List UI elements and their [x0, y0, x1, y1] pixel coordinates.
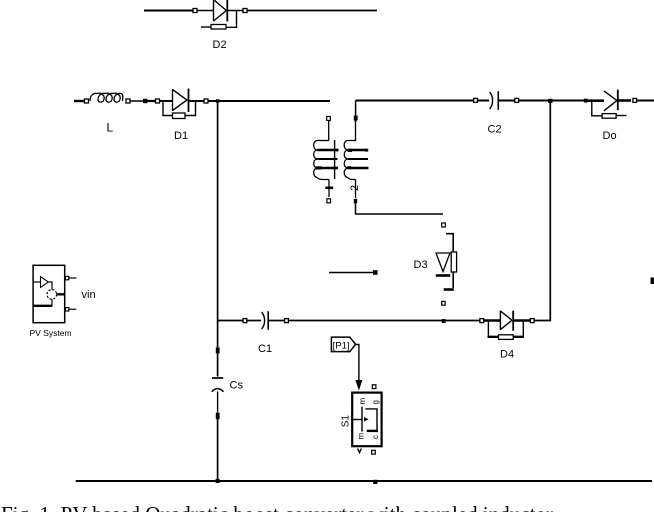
port — [633, 98, 637, 102]
junction — [143, 99, 147, 103]
wire with arrow — [355, 344, 362, 390]
wire — [147, 100, 155, 102]
svg-text:m: m — [357, 433, 366, 440]
junction — [216, 479, 220, 483]
port winding1 bottom — [327, 199, 331, 203]
wire — [637, 100, 654, 102]
diode D3 (vertical) — [436, 234, 457, 290]
diode D1 — [160, 89, 205, 119]
inductor L — [90, 93, 123, 102]
wire — [247, 320, 261, 322]
svg-text:D4: D4 — [500, 349, 514, 361]
wire — [144, 9, 193, 11]
svg-text:[P1]: [P1] — [333, 340, 350, 351]
port — [204, 99, 208, 103]
diode Do — [588, 90, 632, 119]
floating arrow wire — [329, 270, 378, 275]
wire — [356, 204, 444, 215]
port — [243, 9, 247, 13]
wire — [247, 10, 377, 12]
wire — [130, 100, 143, 102]
PV output port 1 — [65, 276, 76, 279]
svg-text:g: g — [371, 400, 380, 404]
port — [156, 99, 160, 103]
wire — [217, 353, 219, 377]
svg-text:S1: S1 — [340, 415, 351, 428]
svg-text:C1: C1 — [258, 343, 272, 355]
svg-text:Do: Do — [603, 130, 617, 142]
port — [584, 99, 588, 103]
wire — [356, 100, 474, 102]
core — [334, 140, 336, 179]
caption — [1, 502, 654, 512]
port Cs bottom (filled) — [216, 413, 220, 420]
port above S1 — [372, 385, 376, 389]
mosfet S1 — [352, 393, 381, 447]
svg-text:2: 2 — [349, 185, 361, 191]
wire — [519, 100, 584, 102]
PV System block — [33, 265, 65, 322]
port Cs top (filled) — [216, 347, 220, 353]
svg-text:vin: vin — [82, 289, 96, 301]
svg-text:D3: D3 — [414, 259, 428, 271]
capacitor C1 — [262, 311, 285, 330]
node junction left — [216, 99, 219, 102]
capacitor C2 — [490, 91, 515, 110]
diode D4 — [484, 311, 531, 340]
output arrow below S1 — [358, 449, 362, 453]
port — [193, 9, 197, 13]
edge mark right — [651, 278, 654, 285]
wire — [534, 101, 551, 321]
port — [126, 99, 130, 103]
svg-text:PV System: PV System — [30, 328, 72, 338]
port winding1 top — [327, 117, 331, 121]
svg-text:C2: C2 — [488, 124, 502, 136]
port — [474, 98, 478, 102]
wire — [208, 100, 330, 102]
winding1 bottom lead + label 1 — [325, 180, 333, 198]
capacitor Cs — [212, 378, 224, 413]
winding 1 — [314, 141, 339, 180]
goto tag P1 — [331, 337, 355, 352]
port — [85, 99, 89, 103]
wire — [478, 100, 490, 102]
port winding2 bottom (filled) — [354, 199, 357, 204]
port D3 bottom — [442, 301, 445, 305]
port winding2 top (filled) — [355, 101, 357, 117]
winding 2 — [344, 121, 368, 180]
junction (below D3) — [442, 319, 446, 323]
svg-text:D2: D2 — [213, 39, 227, 51]
winding2 bottom lead — [355, 180, 357, 199]
port — [530, 319, 534, 323]
wire — [197, 10, 214, 12]
junction — [373, 480, 377, 484]
PV output port 2 — [65, 308, 76, 311]
port — [480, 319, 484, 323]
wire — [218, 320, 243, 322]
port below S1 — [372, 450, 376, 454]
svg-text:c: c — [371, 435, 380, 439]
port — [243, 319, 247, 323]
svg-text:Cs: Cs — [230, 380, 244, 392]
port — [515, 98, 519, 102]
svg-text:L: L — [107, 121, 114, 135]
junction node — [548, 99, 552, 103]
wire — [76, 480, 652, 482]
wire — [74, 100, 85, 102]
port D3 top — [442, 223, 446, 227]
port — [285, 319, 289, 323]
svg-text:D1: D1 — [174, 130, 188, 142]
wire — [217, 419, 219, 481]
diode D2 — [201, 0, 243, 29]
wire — [328, 121, 330, 141]
wire — [288, 320, 480, 322]
svg-text:m: m — [358, 398, 367, 405]
wire — [217, 101, 219, 347]
